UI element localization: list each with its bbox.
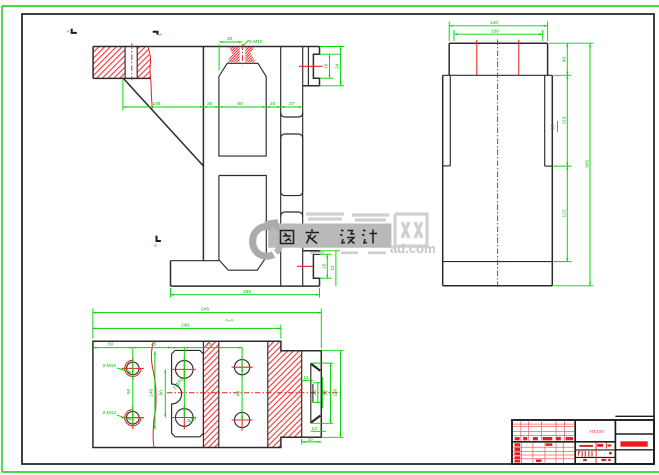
- tongue dim 26: [317, 383, 319, 403]
- end cap small vertical: [312, 384, 314, 403]
- section marker A top-right: [153, 32, 158, 35]
- red cross left top: [122, 367, 145, 369]
- inner left edge: [449, 75, 451, 166]
- svg-text:HT200: HT200: [590, 429, 605, 435]
- vertical dim at 154.9: [154, 351, 156, 429]
- shoulder line: [443, 74, 553, 76]
- right ext lines: [549, 42, 594, 44]
- right dim line 2: [589, 43, 591, 286]
- middle row divider 2: [575, 456, 615, 458]
- base top line: [443, 261, 553, 263]
- right holes vertical dim 60: [241, 348, 243, 420]
- svg-text:90: 90: [159, 390, 165, 396]
- tongue dim 118: [340, 351, 342, 438]
- vertical divider 2: [614, 420, 616, 464]
- right hole bottom: [235, 412, 250, 427]
- boss hatch left piece: [227, 47, 239, 63]
- middle holes vertical green line: [183, 348, 185, 418]
- dim arrows y=107: [123, 106, 127, 108]
- red hole tick right: [518, 40, 520, 76]
- extension line at 219.1: [218, 45, 220, 71]
- middle red verticals: [595, 442, 597, 463]
- end cap inner vertical: [310, 363, 312, 423]
- dim 25: [302, 441, 322, 443]
- slot A bottom cap: [281, 113, 303, 118]
- raised block with half-circle cutout: [172, 350, 204, 436]
- cap right edge: [547, 43, 549, 75]
- end cap chamfer top: [311, 364, 321, 371]
- hatch left block section A: [93, 47, 125, 79]
- red cross right bottom: [232, 419, 253, 421]
- hatch band 2 left edge: [267, 341, 269, 447]
- svg-text:15: 15: [550, 124, 556, 130]
- column left edge: [202, 47, 204, 261]
- lower pocket: [219, 176, 266, 271]
- svg-text:13: 13: [312, 426, 318, 432]
- hatch left block section B: [137, 47, 150, 79]
- title block outer: [512, 420, 654, 464]
- green page border bottom: [2, 471, 659, 473]
- tongue dim 77: [330, 363, 332, 423]
- svg-text:122: 122: [562, 209, 568, 217]
- dim 165: [171, 294, 320, 296]
- front view dimension line y=107: [123, 106, 303, 108]
- svg-text:11: 11: [304, 375, 309, 381]
- base bottom edge: [443, 285, 553, 287]
- hatch band 1 right edge: [218, 341, 220, 447]
- svg-text:16: 16: [324, 63, 330, 69]
- inner right step: [545, 165, 553, 167]
- middle red row4 marks: [583, 459, 611, 461]
- hatch band 1: [203, 341, 218, 447]
- svg-text:2-M12: 2-M12: [103, 410, 117, 416]
- svg-text:40: 40: [562, 57, 568, 63]
- svg-text:165: 165: [243, 289, 251, 295]
- dim 30 line: [219, 41, 242, 43]
- top boss interior edge: [307, 47, 309, 86]
- dim 245: [93, 312, 321, 314]
- right row divider 1: [615, 433, 654, 435]
- svg-text:305: 305: [584, 160, 590, 168]
- cap top edge: [449, 42, 547, 44]
- extension line at 122.9: [122, 80, 124, 111]
- hole wall left: [124, 47, 126, 79]
- inner right edge: [544, 75, 546, 166]
- slot track left line: [280, 47, 282, 287]
- watermark char she: [340, 230, 355, 244]
- svg-text:20: 20: [270, 101, 276, 107]
- left mid divider: [512, 441, 615, 443]
- small dim 15 marks: [557, 121, 559, 132]
- slot track right line: [302, 47, 304, 287]
- svg-text:2-M12: 2-M12: [103, 363, 117, 369]
- svg-text:A-A: A-A: [226, 318, 235, 324]
- red cross right top: [232, 366, 253, 368]
- right hole top: [235, 360, 250, 375]
- green page border left: [1, 6, 3, 472]
- hatch band 2: [268, 341, 302, 447]
- red vertical centerline: [497, 40, 499, 289]
- watermark char tu: [281, 231, 294, 244]
- svg-text:16: 16: [322, 263, 328, 269]
- svg-text:140: 140: [148, 388, 154, 396]
- tongue dim 11: [302, 380, 313, 382]
- right dim line 1: [566, 43, 568, 261]
- left hole top: [127, 362, 140, 375]
- red wavy break line: [151, 342, 156, 448]
- red cross middle top: [173, 368, 197, 370]
- svg-text:60: 60: [236, 391, 242, 397]
- title block upper right cell line: [615, 415, 654, 417]
- svg-text:50: 50: [126, 389, 132, 395]
- top notch dim lines: [329, 54, 331, 78]
- middle red marks row2: [579, 444, 611, 447]
- left table thin red lines: [513, 421, 574, 464]
- red thread leader top boss: [299, 65, 323, 67]
- slot B: [281, 134, 303, 196]
- base top edge: [171, 260, 219, 262]
- dim 130: [454, 33, 543, 35]
- svg-text:245: 245: [201, 307, 209, 313]
- watermark char wen: [306, 229, 320, 244]
- end cap chamfer bottom: [311, 416, 321, 423]
- red cross middle bottom: [173, 417, 197, 419]
- big gray char strips above box: [306, 214, 389, 220]
- hatch band 1 left edge: [202, 341, 204, 447]
- arm bottom edge: [93, 77, 151, 79]
- middle red row3 marks: [579, 451, 592, 456]
- left table red text blobs: [515, 437, 574, 463]
- hole wall right: [136, 47, 138, 79]
- ext line bottom right: [301, 439, 303, 445]
- svg-text:75: 75: [207, 342, 213, 348]
- upper pocket: [219, 63, 266, 156]
- svg-text:45: 45: [151, 342, 157, 348]
- svg-text:27: 27: [289, 101, 295, 107]
- red cross left bottom: [122, 417, 145, 419]
- slot C top cap: [281, 212, 303, 217]
- svg-text:25: 25: [308, 437, 314, 443]
- svg-text:77: 77: [325, 390, 331, 396]
- big gray char wang: [395, 214, 427, 246]
- left hole bottom thread arc: [125, 410, 141, 426]
- svg-text:24: 24: [335, 63, 341, 69]
- tongue dim 29: [321, 377, 323, 408]
- bottom notch ext lines: [320, 253, 332, 255]
- body right edge: [551, 75, 553, 285]
- leader 2-M10: [243, 41, 250, 46]
- svg-text:26: 26: [312, 390, 318, 396]
- svg-text:240: 240: [181, 322, 189, 328]
- left holes vertical dim: [132, 348, 134, 426]
- watermark char ji: [362, 230, 377, 244]
- logo swirl: [253, 226, 274, 256]
- middle hole top: [176, 361, 194, 379]
- red hole tick left: [476, 40, 478, 76]
- svg-text:113: 113: [562, 116, 568, 124]
- cap left edge: [448, 43, 450, 75]
- base left edge: [170, 261, 172, 286]
- left hole top thread arc: [125, 360, 141, 376]
- dim 13: [311, 430, 326, 432]
- vertical dim 90: [164, 369, 166, 417]
- dim 140: [449, 25, 547, 27]
- gray char remnants below box: [310, 252, 386, 255]
- svg-text:ad.com: ad.com: [390, 241, 436, 256]
- svg-text:60: 60: [238, 101, 244, 107]
- svg-text:50: 50: [108, 342, 114, 348]
- right edge with top boss notch: [303, 47, 320, 86]
- section marker A top-left: [72, 29, 77, 33]
- bottom notch dim lines: [326, 254, 328, 278]
- red main horizontal centerline: [167, 392, 341, 394]
- part name red block: [620, 441, 647, 446]
- svg-text:20: 20: [207, 101, 213, 107]
- middle hole bottom: [176, 409, 194, 427]
- svg-text:30: 30: [227, 36, 233, 42]
- svg-text:130: 130: [491, 28, 499, 34]
- red break line on arm: [148, 47, 153, 109]
- top notch ext lines: [320, 53, 342, 55]
- green page border top: [2, 5, 659, 7]
- middle row divider 1: [575, 449, 615, 451]
- vertical divider 1: [574, 420, 576, 464]
- dim 240: [93, 327, 281, 329]
- red thread leader bottom boss: [297, 265, 313, 267]
- section marker A mid: [157, 236, 161, 241]
- base bottom edge: [171, 285, 320, 287]
- arm top edge: [93, 46, 319, 48]
- inner left step: [443, 165, 451, 167]
- bottom boss outline: [303, 251, 320, 286]
- left hole bottom: [127, 411, 140, 424]
- svg-text:140: 140: [490, 20, 498, 26]
- leader top: [117, 368, 131, 373]
- svg-text:105: 105: [153, 101, 161, 107]
- arm left edge: [92, 47, 94, 79]
- leader bottom: [117, 415, 131, 420]
- svg-text:2-M10: 2-M10: [249, 39, 263, 45]
- boss red centerline: [241, 44, 243, 66]
- svg-text:118: 118: [333, 389, 339, 397]
- svg-text:24: 24: [330, 265, 336, 271]
- hatch band 2 right edge: [301, 351, 303, 438]
- watermark gray box: [268, 224, 391, 248]
- plate outline: [93, 341, 321, 447]
- tongue ext lines: [311, 362, 333, 364]
- diagonal brace edge: [123, 78, 203, 166]
- body left edge: [442, 75, 444, 285]
- red centerline of arm hole: [131, 43, 133, 80]
- dim row 50 45 75: [93, 347, 242, 349]
- boss hatch right piece: [245, 47, 256, 63]
- right row divider 2: [615, 449, 654, 451]
